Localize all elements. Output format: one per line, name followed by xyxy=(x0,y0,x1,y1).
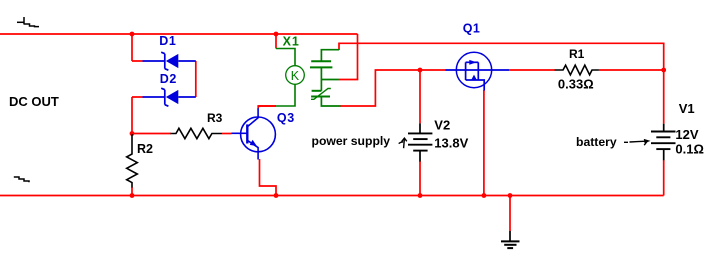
node junction ground xyxy=(508,193,513,198)
svg-text:12V: 12V xyxy=(675,127,698,142)
wire Q3 emitter to rail xyxy=(260,159,277,196)
mosfet Q1 xyxy=(446,52,510,90)
diode D2 xyxy=(143,88,196,106)
svg-text:V2: V2 xyxy=(434,117,450,132)
svg-text:Q3: Q3 xyxy=(277,111,295,125)
svg-text:V1: V1 xyxy=(679,101,695,116)
resistor R2 xyxy=(127,134,138,188)
node junction R2 bottom xyxy=(130,193,135,198)
svg-text:power supply: power supply xyxy=(312,134,391,148)
wire R1 to right vertical xyxy=(599,69,664,71)
svg-text:R3: R3 xyxy=(207,111,223,125)
wire node to R3 xyxy=(132,133,171,135)
wire Q3 collector link xyxy=(258,106,276,109)
svg-text:Q1: Q1 xyxy=(463,21,480,35)
wire Q1 to R1 xyxy=(509,69,555,71)
annotation arrow battery xyxy=(624,139,651,145)
svg-text:D1: D1 xyxy=(159,34,176,48)
wire V2 branch top xyxy=(419,70,421,123)
svg-text:K: K xyxy=(291,69,300,83)
svg-text:DC OUT: DC OUT xyxy=(9,94,59,109)
diode D1 xyxy=(143,52,196,70)
resistor R3 xyxy=(171,128,223,138)
battery V2 xyxy=(408,123,432,161)
svg-text:D2: D2 xyxy=(160,72,177,86)
wire D1 branch xyxy=(132,34,143,61)
node junction coil on top rail xyxy=(274,32,279,37)
wire coil top red xyxy=(275,34,277,49)
node junction V2 top xyxy=(418,68,423,73)
svg-text:R1: R1 xyxy=(569,47,585,61)
battery V1 xyxy=(651,124,676,161)
node junction V2 bottom xyxy=(418,193,423,198)
connector mark top-left xyxy=(17,17,39,27)
wire rail to contact common xyxy=(357,34,359,80)
connector mark bottom-left xyxy=(14,177,29,182)
wire armature to Q1 row xyxy=(340,70,446,106)
wire D1-D2 right link xyxy=(195,61,197,97)
svg-text:R2: R2 xyxy=(137,142,153,156)
svg-text:0.1Ω: 0.1Ω xyxy=(675,142,704,157)
relay X1 coil xyxy=(276,49,304,107)
wire Q1 source to rail xyxy=(483,90,485,196)
wire right vertical below battery V1 xyxy=(663,160,665,195)
resistor R1 xyxy=(555,65,599,75)
wire B contact to right side xyxy=(339,43,664,123)
node junction emitter bottom xyxy=(274,193,279,198)
ground xyxy=(501,231,520,248)
wire D2 branch xyxy=(132,97,143,135)
wire R3 to Q3 base xyxy=(222,133,232,135)
node junction R2 R3 xyxy=(130,131,135,136)
wire V2 branch bottom xyxy=(419,161,421,196)
annotation arrow power supply xyxy=(399,138,407,148)
svg-text:X1: X1 xyxy=(283,34,300,48)
wire R2 to bottom rail xyxy=(131,187,133,196)
wire coil bottom red xyxy=(258,105,276,107)
node junction D1 on top rail xyxy=(130,32,135,37)
svg-text:13.8V: 13.8V xyxy=(434,135,468,150)
node junction Q1 source bottom xyxy=(482,193,487,198)
wire bottom rail xyxy=(0,195,664,197)
transistor Q3 xyxy=(232,108,276,159)
node junction R1 right xyxy=(661,68,666,73)
wire ground tap xyxy=(509,196,511,232)
wire top rail xyxy=(0,33,358,35)
svg-text:0.33Ω: 0.33Ω xyxy=(558,77,594,92)
wire contact common stub xyxy=(339,79,359,81)
svg-text:battery: battery xyxy=(576,135,617,149)
relay X1 contact xyxy=(310,50,341,106)
